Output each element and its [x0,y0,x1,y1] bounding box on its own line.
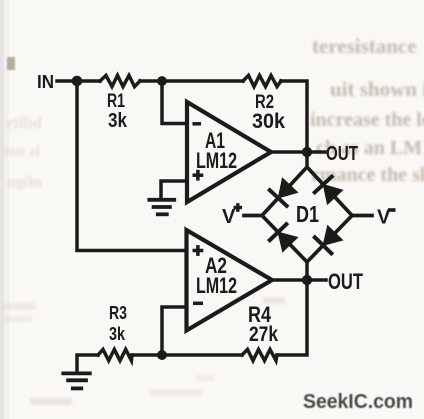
resistor R1 [100,75,140,86]
wire inverting input A1 [162,81,187,124]
svg-text:D1: D1 [296,201,319,227]
ghost marks left edge [2,113,42,191]
svg-text:3k: 3k [108,110,128,132]
node OUT top [302,147,312,157]
diode D1b top-right [313,175,341,203]
wire A1 output to node [271,150,307,154]
wire node to bridge top [305,152,309,167]
resistor R4 [242,349,277,360]
node OUT bottom [302,275,312,285]
wire node down and left to R4 [277,280,307,355]
op-amp A1 [187,102,271,202]
diode D1c bottom-left [268,223,296,251]
wire R2 to corner and down to OUT node [281,81,307,152]
ground below A1 [147,200,176,215]
svg-text:nfigu: nfigu [6,174,42,191]
wire A2 - input [162,307,187,355]
wire OUT stub top [307,150,325,154]
svg-text:SeekIC.com: SeekIC.com [303,390,413,413]
svg-text:3k: 3k [109,324,126,344]
svg-text:LM12: LM12 [196,148,237,173]
wire V+ stub [244,214,262,218]
wire junction to R3 [132,353,162,357]
green mark top left [7,57,15,70]
node R3-R4 junction [157,350,167,360]
svg-text:is not: is not [2,143,40,160]
ghost smudges bottom [2,297,285,405]
wire A2 output to node [272,278,307,282]
resistor R3 [98,349,132,360]
svg-text:30k: 30k [252,110,285,133]
wire R3 to ground corner [77,355,98,372]
wire left rail down from IN junction [77,81,187,251]
diode D1d bottom-right [313,227,341,255]
wire A1 + to ground [161,181,187,198]
svg-text:OUT: OUT [328,269,363,294]
ground bottom left [61,373,91,388]
op-amp A2 [187,230,273,331]
svg-text:uit shown in F: uit shown in F [330,77,424,101]
svg-text:R3: R3 [109,303,127,323]
svg-text:LM12: LM12 [196,273,237,298]
svg-text:V: V [222,206,236,228]
wire bridge bottom to node [305,262,309,280]
svg-text:OUT: OUT [326,143,358,165]
resistor R2 [243,75,281,86]
wire V- stub [352,214,372,218]
wire R1 left lead [77,79,100,83]
node R1-R2 junction [157,76,167,86]
wire R1 to R2 [140,79,243,83]
svg-text:teresistance: teresistance [312,34,417,58]
svg-text:increase the lo: increase the lo [310,109,424,131]
diode D1a top-left [268,179,296,207]
wire R4 to junction [162,353,242,357]
bridge diamond D1 [244,167,372,262]
ghost bleed-through text top right [310,34,424,186]
svg-text:27k: 27k [249,323,278,346]
wire OUT stub bottom [307,278,326,282]
wire diamond edges [262,167,352,262]
svg-text:R1: R1 [107,91,125,112]
svg-text:bility: bility [4,113,42,132]
node IN junction [72,76,83,87]
wire IN to junction [57,79,80,83]
svg-text:IN: IN [37,72,54,92]
